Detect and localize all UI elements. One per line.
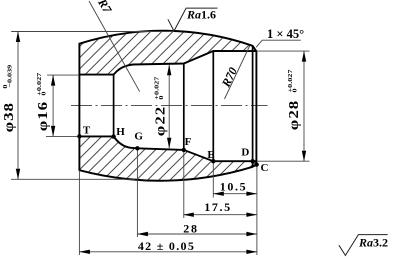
hatched section bottom	[79, 136, 256, 180]
svg-text:1.6: 1.6	[201, 7, 216, 21]
extension line from G down	[136, 148, 138, 237]
svg-text:Ra: Ra	[358, 235, 373, 249]
phi22 dimension line	[168, 65, 170, 149]
svg-text:φ38: φ38	[2, 102, 17, 132]
bore profile top	[79, 51, 256, 75]
svg-text:0: 0	[290, 88, 298, 92]
svg-text:1 × 45°: 1 × 45°	[267, 27, 304, 41]
dim 28	[137, 233, 257, 235]
dim 17.5	[183, 214, 257, 216]
phi38 extension bottom	[11, 178, 135, 180]
phi16 dimension line	[52, 75, 54, 136]
phi16 extension top	[47, 74, 79, 76]
edge line at F	[183, 64, 185, 150]
svg-text:E: E	[207, 149, 214, 161]
dim 42	[79, 251, 257, 253]
extension line from C down	[256, 166, 258, 255]
svg-text:T: T	[83, 125, 91, 137]
leader R70	[225, 46, 250, 100]
surface finish Ra3.2	[339, 235, 388, 256]
svg-text:φ16: φ16	[36, 101, 51, 131]
svg-text:3.2: 3.2	[373, 235, 388, 249]
node C	[254, 162, 258, 166]
phi28 extension top	[257, 50, 310, 52]
node H	[111, 134, 115, 138]
bore profile bottom	[79, 136, 256, 161]
part outline	[79, 31, 256, 181]
extension line from F down	[183, 150, 185, 218]
svg-text:D: D	[241, 147, 249, 159]
svg-text:Ra: Ra	[186, 7, 201, 21]
leader 1x45	[256, 40, 301, 47]
node G	[135, 146, 139, 150]
edge line at H (phi16 end)	[113, 75, 115, 137]
phi38 extension top	[11, 31, 174, 33]
chamfer edge line	[252, 46, 254, 167]
phi28 extension bottom	[257, 160, 310, 162]
node T	[77, 134, 81, 138]
svg-text:H: H	[116, 126, 125, 138]
svg-text:F: F	[185, 136, 192, 148]
svg-text:−0.039: −0.039	[5, 64, 13, 87]
dim 10.5	[213, 193, 257, 195]
svg-text:17.5: 17.5	[204, 200, 231, 214]
phi38 label	[1, 64, 17, 132]
hatched section top	[79, 31, 256, 75]
extension line from E down	[212, 161, 214, 197]
svg-text:42 ± 0.05: 42 ± 0.05	[138, 239, 195, 253]
svg-text:28: 28	[183, 222, 199, 236]
node E	[211, 159, 215, 163]
leader R7	[89, 1, 140, 92]
phi16 extension bottom	[46, 135, 79, 137]
phi28 dimension line	[303, 51, 305, 161]
svg-text:0: 0	[39, 91, 47, 95]
node F	[182, 148, 186, 152]
svg-text:0: 0	[157, 95, 165, 99]
centerline (axis)	[71, 105, 268, 107]
svg-text:φ22: φ22	[153, 106, 168, 136]
node D	[250, 159, 254, 163]
surface finish Ra1.6	[168, 8, 218, 31]
svg-text:C: C	[261, 162, 269, 174]
phi28 label	[286, 69, 302, 130]
phi16 label	[35, 72, 51, 131]
phi38 dimension line	[17, 32, 19, 180]
extension line from left face down	[78, 170, 80, 255]
svg-text:φ28: φ28	[287, 100, 302, 130]
phi22 label	[152, 76, 168, 136]
svg-text:G: G	[134, 131, 143, 143]
edge line at E	[212, 51, 214, 161]
svg-text:10.5: 10.5	[220, 180, 247, 194]
